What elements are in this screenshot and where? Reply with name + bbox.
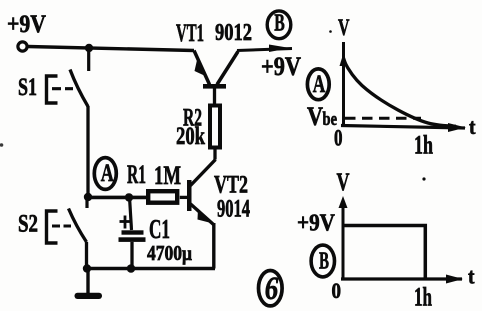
graph B axis label V	[337, 169, 350, 196]
svg-text:V: V	[307, 102, 323, 131]
svg-text:20k: 20k	[176, 123, 205, 150]
svg-text:A: A	[313, 71, 326, 98]
output +9V label	[261, 52, 301, 81]
graph B pulse waveform	[344, 226, 425, 280]
svg-text:+9V: +9V	[7, 11, 46, 38]
graph B 1h tick label	[414, 283, 432, 311]
graph A Vbe label	[307, 102, 337, 131]
node B	[267, 11, 291, 39]
wire down to S1	[87, 48, 90, 71]
resistor R2	[210, 89, 220, 148]
capacitor C1 lead	[130, 197, 132, 230]
node A	[94, 158, 116, 190]
svg-text:0: 0	[332, 278, 342, 303]
transistor VT1 type	[215, 20, 252, 46]
wire VT2 collector to R2	[213, 150, 216, 160]
svg-text:9012: 9012	[215, 20, 252, 46]
switch S1 label	[18, 74, 37, 101]
graph B vertical axis	[339, 196, 348, 280]
graph B origin 0	[332, 278, 342, 303]
switch S2 actuator bracket	[47, 211, 58, 243]
svg-text:0: 0	[334, 126, 343, 151]
svg-text:1M: 1M	[154, 161, 181, 190]
+9V supply label	[7, 11, 46, 38]
svg-text:1h: 1h	[414, 283, 432, 311]
svg-text:9014: 9014	[217, 196, 250, 223]
wire top rail	[28, 47, 194, 51]
junction capacitor bottom	[127, 264, 136, 273]
graph A origin 0	[334, 126, 343, 151]
capacitor C1	[119, 230, 146, 268]
switch S1 actuator bracket	[47, 76, 58, 103]
capacitor C1 polarity plus	[120, 216, 131, 229]
resistor R2 value	[176, 123, 205, 150]
wire collector to output B	[237, 45, 292, 53]
svg-text:V: V	[338, 15, 350, 40]
supply terminal	[18, 42, 27, 51]
svg-text:t: t	[469, 114, 476, 139]
graph A dashed Vbe level	[345, 117, 421, 120]
svg-text:R1: R1	[127, 160, 146, 189]
switch S2 label	[18, 211, 38, 238]
graph A node label A	[307, 69, 329, 100]
graph A 1h tick label	[414, 131, 433, 160]
svg-text:B: B	[274, 11, 285, 37]
transistor VT1 label	[176, 20, 204, 47]
transistor VT2 type	[217, 196, 250, 223]
resistor R1 label	[127, 160, 146, 189]
svg-text:6: 6	[265, 271, 279, 307]
junction top rail	[85, 44, 93, 52]
switch S1 blade	[70, 70, 88, 107]
svg-text:B: B	[319, 249, 329, 275]
ground	[75, 269, 103, 300]
wire middle rail	[88, 196, 148, 200]
switch S2 dashed link	[52, 224, 71, 227]
graph B axis label t	[468, 264, 475, 289]
switch S2 blade	[69, 209, 87, 243]
svg-text:+9V: +9V	[261, 52, 301, 81]
svg-text:+9V: +9V	[297, 211, 336, 237]
graph A axis label V	[338, 15, 350, 40]
capacitor C1 value	[147, 241, 192, 265]
stray ink speck	[0, 143, 3, 147]
svg-text:4700μ: 4700μ	[147, 241, 192, 265]
stray ink speck	[422, 177, 425, 180]
graph A vertical axis	[340, 42, 349, 126]
capacitor C1 label	[149, 214, 170, 244]
transistor VT1	[194, 51, 238, 89]
graph A decay curve	[344, 61, 456, 126]
junction capacitor branch	[125, 193, 133, 201]
svg-text:C1: C1	[149, 214, 170, 244]
resistor R1	[148, 191, 188, 203]
stray ink speck	[329, 30, 332, 33]
figure number 6	[259, 271, 283, 308]
junction bottom rail	[83, 264, 91, 272]
wire bottom rail	[87, 267, 215, 271]
graph B node label B	[311, 245, 334, 277]
graph B +9V level label	[297, 211, 336, 237]
svg-text:S1: S1	[18, 74, 37, 101]
svg-text:VT2: VT2	[214, 172, 248, 199]
resistor R2 label	[183, 105, 202, 132]
resistor R1 value	[154, 161, 181, 190]
svg-text:A: A	[101, 160, 114, 187]
graph B horizontal axis	[341, 275, 463, 284]
svg-text:VT1: VT1	[176, 20, 204, 47]
switch S1 dashed link	[52, 87, 73, 90]
transistor VT2 label	[214, 172, 248, 199]
wire VT2 emitter to bottom rail	[212, 223, 215, 269]
transistor VT2	[187, 160, 216, 225]
svg-text:V: V	[337, 169, 350, 196]
wire stub to S2	[85, 197, 88, 208]
junction at middle rail	[84, 193, 92, 201]
svg-text:t: t	[468, 264, 475, 289]
graph A horizontal axis	[341, 123, 466, 132]
svg-text:1h: 1h	[414, 131, 433, 160]
wire S1 to node A	[86, 106, 89, 197]
graph A axis label t	[469, 114, 476, 139]
svg-text:S2: S2	[18, 211, 38, 238]
wire S2 to bottom rail	[85, 242, 88, 268]
